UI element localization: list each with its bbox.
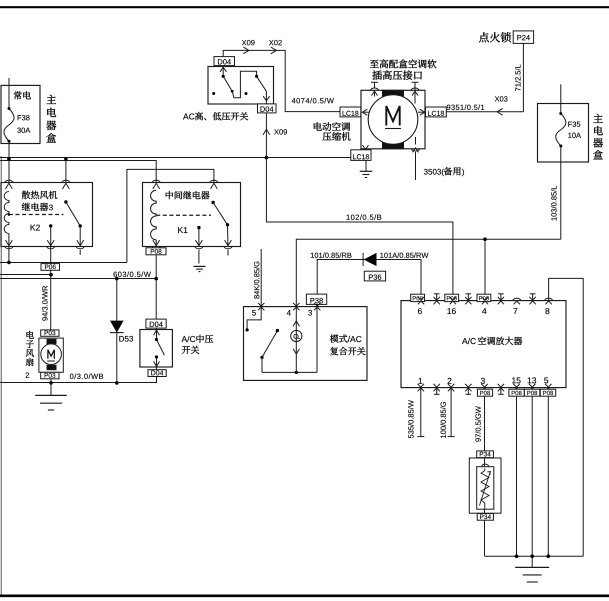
label AC高、低压开关 [183, 112, 248, 120]
mid switch internals [154, 328, 165, 383]
compressor terminal block top [383, 90, 404, 100]
label 复合开关 [330, 347, 365, 355]
wire K2 coil to 262 bus [8, 247, 10, 263]
junction dot K2 switch/bus [64, 157, 68, 161]
label 0/3.0/WB [70, 373, 103, 379]
label X09 (top) [242, 40, 255, 45]
label 插高压接口 [372, 70, 422, 79]
connector P34 bottom [477, 514, 493, 521]
junction dot X09/bus A [265, 156, 269, 160]
label X02 [269, 40, 282, 45]
connector P03 top [41, 330, 59, 336]
label 中间继电器 [166, 191, 210, 199]
wire LC18 to ground [365, 160, 367, 171]
wire 603/0.5/W bus [0, 278, 156, 280]
connector P08 pin13 [524, 389, 539, 396]
connector P08 (K1 coil) [146, 248, 166, 255]
mode switch pin5 internal wire [246, 307, 262, 332]
connector P08 pin16 [445, 294, 459, 301]
fuse F35 [556, 104, 566, 163]
label 电子风扇 2 [26, 331, 34, 378]
wire 9351/0.5/1 [446, 111, 523, 113]
mode switch box 模式/AC复合开关 [244, 307, 368, 381]
mating arrow X09 vertical [263, 129, 270, 135]
label 71/2.5/L [515, 65, 521, 91]
connector LC18 right [418, 107, 447, 117]
motor circle M [368, 95, 418, 145]
label 主电器盒 (right box) [593, 114, 603, 159]
fuse box F38 (主电器盒) [1, 85, 40, 143]
pin 2 amp [448, 378, 455, 437]
junction dot F38/bus [7, 157, 11, 161]
connector P03 bottom [41, 372, 59, 379]
stub pin top b [465, 294, 471, 305]
junction dot D53/gnd bus [115, 381, 119, 385]
stub pin bottom b [465, 384, 471, 394]
value label F35 10A [568, 122, 581, 138]
junction dot pin5/gnd [547, 554, 551, 558]
ground fan [35, 395, 67, 410]
pin 4 mode switch [287, 303, 300, 316]
wire amp pin3 to thermistor [484, 388, 486, 557]
coil K1 [151, 190, 157, 240]
wire bottom ground bus [485, 555, 584, 557]
label 散热风机 [22, 191, 57, 199]
wire to P24 [522, 43, 524, 111]
pin 13 amp [528, 377, 536, 556]
thermistor zigzag [481, 469, 489, 510]
label X09 (vertical wire) [274, 129, 287, 134]
thermistor inner box [477, 467, 494, 510]
terminal compressor bottom-left [361, 145, 369, 150]
pin 1 amp [417, 378, 424, 437]
mid pressure switch box [140, 330, 173, 368]
connector P34 top [477, 451, 494, 458]
wire K2 to fan P03 [50, 247, 52, 331]
junction dot fan feed [49, 273, 53, 277]
junction dot fan/gnd bus [49, 381, 53, 385]
mating arrow into D04 bottom [263, 96, 269, 101]
switch K2 [49, 200, 82, 227]
terminal K1 bottom 87a [195, 228, 203, 264]
mating arrow X09 [243, 47, 249, 54]
connector P08 pin6 [411, 294, 425, 301]
pin 8 amp [545, 298, 553, 314]
label 电动空调 [314, 122, 350, 131]
wire D04 top to X09/X02 [223, 50, 340, 111]
pin 5 mode switch [252, 303, 264, 316]
terminal compressor top-right [411, 82, 419, 103]
fan terminal block bottom [47, 365, 56, 369]
pressure switch box AC高低压开关 [208, 67, 274, 105]
label 102/0.5/B [347, 214, 382, 220]
terminal K2 coil top [5, 180, 13, 189]
label 97/0.5/GW [475, 406, 481, 441]
terminal K2 bottom contact 87 [47, 226, 55, 249]
pin 3 mode switch [308, 303, 320, 316]
terminal K2 bottom coil [5, 240, 13, 249]
wire amp pin 4 up [484, 239, 486, 300]
connector D04 mid bottom [148, 370, 166, 377]
connector D04 (top) [214, 57, 235, 66]
wire K1 coil down to D04 [155, 255, 157, 319]
junction dot amp pin4 feed [483, 237, 487, 241]
junction dot pin15/gnd [515, 554, 519, 558]
compressor terminal block bottom [383, 139, 404, 149]
junction dot K1-D04/603 [154, 277, 158, 281]
stub pin top a [434, 294, 440, 305]
label 101A/0.85/RW [380, 252, 428, 258]
thermistor outer box [469, 458, 501, 513]
fan terminal block top [47, 339, 56, 343]
wire 102/0.5/B route [266, 158, 453, 301]
diode D53 [110, 321, 124, 333]
pin 15 amp [512, 377, 520, 556]
junction dot K2/262 bus [7, 261, 11, 265]
label 101/0.85/RB [311, 252, 352, 258]
terminal K1 coil top [152, 180, 160, 189]
wire main bus A (F38 to compressor LC18) [0, 157, 352, 159]
bottom border line [0, 594, 609, 597]
mode switch internal bus [262, 357, 317, 374]
coil K2 [4, 192, 9, 234]
label X03 [495, 96, 508, 101]
label 开关 [182, 346, 199, 354]
label 100/0.85/G [440, 402, 446, 438]
connector D04 mid top [146, 319, 166, 328]
label 常电 [14, 91, 31, 99]
label 压缩机 [323, 132, 351, 141]
amplifier box A/C空调放大器 [401, 301, 566, 388]
label D53 [119, 336, 133, 342]
mating arrow X02 [271, 47, 277, 54]
wire 101/0.85 diode line [317, 260, 421, 307]
fan motor letter M [47, 350, 55, 361]
pin 7 amp [513, 298, 521, 314]
mating arrow X03 [497, 108, 503, 115]
connector P24 点火锁 [513, 31, 533, 44]
connector P36 [364, 271, 385, 281]
terminal K1 bottom coil [152, 240, 160, 249]
stub pin bottom c [498, 384, 504, 394]
thermistor arrow [480, 472, 491, 506]
pin 16 amp [447, 297, 456, 314]
terminal compressor top-left [371, 82, 379, 96]
connector P08 pin5 bottom [540, 389, 555, 396]
pin 4 amp [482, 297, 488, 314]
dashed link K2 [8, 213, 64, 216]
label 主电器盒 (left box) [46, 95, 56, 143]
wire K1 coil to box bottom [155, 240, 157, 247]
relay K1 box 中间继电器 [143, 183, 241, 247]
wire amp pin6 up (101A) [420, 260, 422, 301]
wire F35 feed stub [560, 84, 562, 103]
wire K1 switch feeder from 262 bus [127, 169, 214, 262]
wire F35 down [560, 162, 562, 239]
stub pin top d [529, 294, 535, 305]
top border line [0, 6, 609, 8]
wire D53 [116, 279, 118, 383]
pin 3 amp [481, 378, 488, 391]
relay K2 box 散热风机继电器3 [1, 183, 93, 247]
stub pin bottom a [434, 384, 440, 394]
label 点火锁 [479, 32, 511, 42]
pin 5 amp [544, 377, 551, 556]
label K2 [31, 225, 40, 231]
fan motor circle [41, 344, 62, 365]
ground K1 [194, 266, 206, 271]
switch K1 [197, 201, 229, 230]
switch AC internals [212, 66, 266, 98]
wire 262 bus [0, 262, 127, 264]
label 至高配盒空调软 [370, 59, 437, 68]
pin 6 amp [418, 297, 424, 314]
wire F38 to bus [8, 141, 10, 182]
terminal K1 switch top [210, 180, 218, 189]
connector LC18 bottom [351, 150, 371, 161]
label A/C中压 [182, 335, 214, 343]
left page edge line [0, 156, 2, 595]
label K1 [178, 227, 187, 233]
dashed link K1 [156, 214, 211, 216]
label 模式/AC [330, 334, 362, 342]
label 84K/0.85/G [254, 262, 260, 299]
wire X09 down from switch [265, 91, 267, 157]
motor letter M [385, 106, 401, 129]
fuse F38 [4, 85, 14, 142]
connector LC18 left [340, 107, 370, 117]
fuse box F35 (主电器盒) [538, 104, 589, 163]
label 3503(备用) [424, 167, 464, 176]
label 94/3.0/WR [42, 286, 48, 321]
connector D04 (bottom) [258, 104, 277, 113]
compressor box 电动空调压缩机 [361, 90, 425, 149]
connector P38 [306, 294, 326, 304]
ground amplifier [515, 556, 549, 582]
mode switch pin3 internal wire [316, 307, 318, 373]
wire 84K/0.85/G [260, 249, 262, 307]
wire fan to ground [50, 379, 52, 396]
label A/C空调放大器 [462, 337, 522, 345]
connector P08 pin4 [477, 294, 491, 301]
terminal K2 bottom switch [76, 226, 84, 255]
label 9351/0.5/1 [447, 104, 484, 110]
label 4074/0.5/W [292, 98, 334, 104]
label 535/0.85/W [408, 400, 414, 438]
ground compressor [360, 171, 373, 177]
fan motor box 电子风扇 [39, 338, 63, 372]
wire K2 switch feed [65, 159, 67, 183]
mode switch AC contact (circle) [291, 307, 302, 373]
diode P36 [363, 253, 376, 266]
label 603/0.5/W [113, 271, 150, 277]
wire K2 coil to box bottom [8, 234, 10, 247]
thermistor terminal dome [482, 464, 489, 467]
wire ignition feed line [296, 239, 561, 306]
label 103/0.85/L [551, 186, 557, 221]
connector P08 pin15 [509, 389, 524, 396]
terminal K2 switch top [62, 180, 70, 189]
wire F38 feed stub [8, 78, 10, 85]
connector P06 [41, 264, 60, 271]
terminal K1 bottom switch [224, 225, 232, 256]
stub pin top c [498, 294, 504, 305]
junction dot D53/603 [115, 277, 119, 281]
terminal compressor bottom-right 3503 [412, 137, 420, 180]
junction dot pin13/gnd [530, 554, 534, 558]
wire fan feed bus [0, 274, 51, 276]
label 继电器3 [22, 203, 53, 211]
connector P08 pin3 bottom [477, 389, 492, 396]
wire bus B (to K1 coil) [0, 161, 156, 183]
value label F38 30A [17, 115, 30, 133]
wire fan ground bus [0, 382, 157, 384]
mode switch blade [260, 329, 279, 359]
wire amp pin8 to ground bus [549, 278, 584, 556]
